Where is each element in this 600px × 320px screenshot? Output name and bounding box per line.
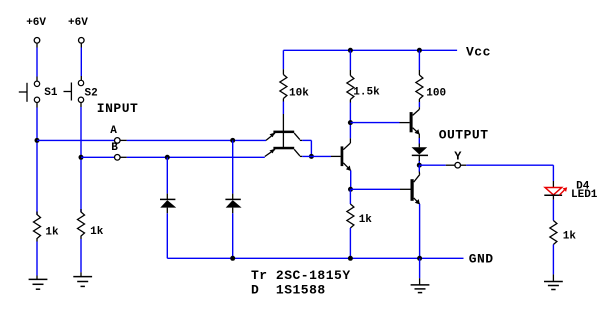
wire: +6V right terminal to S2 bbox=[80, 43, 82, 80]
wire: diode D2 to GND rail bbox=[232, 213, 234, 258]
junction: wire B at column S2 bbox=[79, 155, 84, 160]
wire: node to 1k bbox=[349, 189, 351, 204]
terminal B bbox=[115, 155, 121, 161]
switch S1 bbox=[19, 81, 40, 102]
junction: wire A and diode D2 column bbox=[230, 138, 235, 143]
wire: diode D1 column upper bbox=[166, 157, 168, 199]
ground (GND rail) bbox=[411, 285, 430, 293]
terminal +6V right bbox=[79, 38, 85, 44]
ground (under S1 column) bbox=[29, 279, 48, 289]
diode D3 bbox=[412, 147, 429, 161]
svg-text:B: B bbox=[111, 142, 118, 154]
switch S2 bbox=[64, 80, 84, 102]
svg-text:100: 100 bbox=[426, 87, 446, 99]
wire: LED to 1k bbox=[552, 200, 554, 221]
wire: node Y to Q5 collector bbox=[418, 165, 420, 175]
svg-text:1k: 1k bbox=[359, 214, 373, 226]
junction: 1.5k column and Q4 base wire bbox=[348, 120, 353, 125]
wire: node Y to terminal Y bbox=[419, 164, 454, 166]
wire: 10k to input transistor base bbox=[282, 99, 284, 149]
wire: Q5 emitter to GND rail bbox=[419, 204, 421, 258]
junction: Vcc and 1.5k column bbox=[348, 48, 353, 53]
junction: Q3 emitter and Q5 base wire bbox=[348, 187, 353, 192]
wire: Q4 emitter to diode D3 bbox=[418, 134, 420, 147]
svg-text:1k: 1k bbox=[45, 227, 59, 239]
wire: node to Q4 base bbox=[350, 122, 409, 124]
wire: node to Q5 base bbox=[351, 188, 411, 190]
junction: node Y bbox=[417, 163, 422, 168]
svg-text:Tr 2SC-1815Y: Tr 2SC-1815Y bbox=[251, 268, 351, 283]
junction: Vcc and 100 column bbox=[417, 48, 422, 53]
junction: wire B and diode D1 column bbox=[165, 155, 170, 160]
wire: GND rail to ground symbol bbox=[419, 258, 421, 285]
wire: Q1 collector to node bbox=[302, 140, 311, 156]
junction: GND and D2 column bbox=[230, 256, 235, 261]
wire A: left segment bbox=[37, 139, 115, 141]
svg-text:D 1S1588: D 1S1588 bbox=[251, 282, 326, 297]
resistor R7 1k (LED) bbox=[550, 221, 557, 245]
terminal A bbox=[115, 138, 121, 144]
transistor Q4 (upper output) bbox=[410, 109, 420, 134]
wire: diode D1 to GND rail bbox=[166, 213, 168, 258]
svg-text:LED1: LED1 bbox=[571, 189, 598, 201]
wire: S2 down to node B row bbox=[80, 103, 82, 158]
wire A: to input transistor emitter bbox=[127, 139, 266, 141]
svg-text:INPUT: INPUT bbox=[97, 101, 139, 116]
wire B: left segment bbox=[81, 156, 115, 158]
resistor R4 1.5k bbox=[347, 76, 354, 100]
transistor Q1 (input, upper) bbox=[266, 131, 302, 141]
transistor Q3 (phase splitter) bbox=[341, 143, 351, 171]
junction: collectors to stage 2 bbox=[309, 154, 314, 159]
wire: 1.5k to Q3 collector node bbox=[349, 100, 351, 144]
wire: S1 down to node A row bbox=[36, 103, 38, 141]
transistor Q2 (input, lower) bbox=[265, 147, 302, 157]
wire: R1 to ground bbox=[36, 242, 38, 280]
svg-text:Y: Y bbox=[454, 149, 462, 163]
svg-text:A: A bbox=[110, 125, 117, 137]
svg-text:Vcc: Vcc bbox=[466, 45, 491, 60]
svg-text:+6V: +6V bbox=[68, 17, 88, 29]
junction: wire A at column S1 bbox=[35, 138, 40, 143]
resistor R6 1k bbox=[347, 204, 354, 228]
wire: 1k to GND rail bbox=[349, 228, 351, 258]
wire: node to Q3 base bbox=[302, 155, 340, 157]
wire: Vcc to 10k bbox=[282, 50, 284, 74]
resistor R3 10k bbox=[280, 75, 287, 99]
junction: GND and Q5 emitter bbox=[417, 256, 422, 261]
terminal +6V left bbox=[34, 38, 40, 44]
transistor Q5 (lower output) bbox=[411, 175, 420, 205]
diode D1 bbox=[160, 199, 176, 213]
LED D4 bbox=[544, 187, 567, 200]
svg-text:OUTPUT: OUTPUT bbox=[439, 128, 489, 143]
GND rail bbox=[167, 257, 463, 259]
wire: column S1 down to 1k bbox=[36, 140, 38, 214]
resistor R2 1k (under S2) bbox=[78, 209, 85, 239]
wire: terminal Y to LED column bbox=[461, 165, 554, 187]
wire: Vcc to 1.5k bbox=[349, 50, 351, 75]
wire: column S2 down to 1k bbox=[80, 157, 82, 212]
wire: 1k to ground bbox=[552, 245, 554, 282]
wire: diode D3 to node Y bbox=[418, 161, 420, 165]
svg-text:1k: 1k bbox=[563, 231, 577, 243]
junction: GND and 1k column bbox=[348, 256, 353, 261]
resistor R5 100 bbox=[416, 75, 423, 99]
wire B: stub right of terminal bbox=[120, 156, 127, 158]
svg-text:+6V: +6V bbox=[26, 17, 46, 29]
wire B: to input transistor emitter bbox=[127, 156, 265, 158]
svg-text:1.5k: 1.5k bbox=[353, 86, 380, 98]
svg-text:S2: S2 bbox=[85, 88, 98, 100]
wire: R2 to ground bbox=[80, 239, 82, 277]
resistor R1 1k (under S1) bbox=[34, 212, 41, 242]
Vcc rail bbox=[283, 49, 457, 51]
terminal Y bbox=[455, 162, 461, 168]
wire A: stub right of terminal bbox=[120, 139, 127, 141]
wire: +6V left terminal to S1 bbox=[36, 43, 38, 81]
svg-text:10k: 10k bbox=[289, 87, 309, 99]
wire: diode D2 column upper bbox=[232, 140, 234, 199]
ground (LED column) bbox=[544, 282, 563, 290]
wire: Q3 emitter down bbox=[350, 170, 352, 189]
ground (under S2 column) bbox=[73, 277, 92, 287]
diode D2 bbox=[225, 199, 241, 213]
svg-text:GND: GND bbox=[469, 251, 494, 266]
wire: Vcc to 100 bbox=[418, 50, 420, 75]
wire: 100 to Q4 collector bbox=[418, 99, 420, 109]
svg-text:S1: S1 bbox=[44, 87, 58, 99]
svg-text:1k: 1k bbox=[90, 226, 104, 238]
